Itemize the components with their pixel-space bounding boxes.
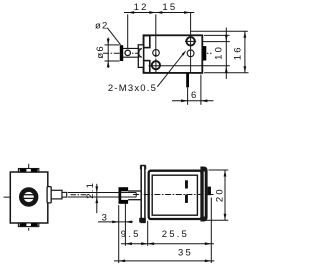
svg-text:15: 15 <box>162 2 177 13</box>
svg-text:ø6: ø6 <box>95 45 106 59</box>
svg-text:20: 20 <box>214 187 225 202</box>
svg-text:16: 16 <box>233 45 244 60</box>
svg-text:6: 6 <box>191 90 198 101</box>
svg-text:ø2: ø2 <box>95 20 109 31</box>
svg-text:25.5: 25.5 <box>162 229 189 240</box>
svg-text:12: 12 <box>134 2 149 13</box>
svg-text:2.1: 2.1 <box>85 182 96 199</box>
svg-text:10: 10 <box>214 45 225 60</box>
svg-text:9.5: 9.5 <box>121 229 141 240</box>
svg-text:2-M3x0.5: 2-M3x0.5 <box>108 83 157 94</box>
svg-text:35: 35 <box>178 248 193 259</box>
svg-text:3: 3 <box>102 212 109 223</box>
